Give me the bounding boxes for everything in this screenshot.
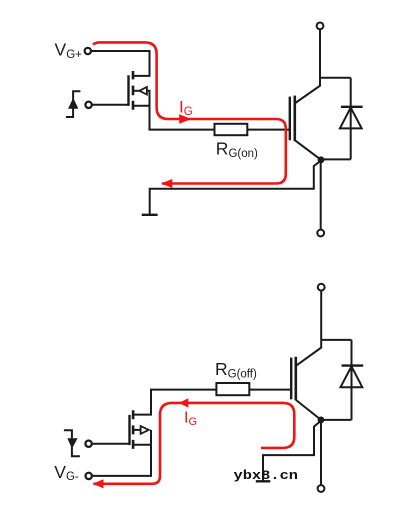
IGBT Z1 gate bar [289, 97, 291, 141]
junction dot emitter (bottom circuit) [318, 417, 325, 424]
Q1 drain stub [133, 75, 151, 77]
wire Q1 source down to RG(on) [150, 91, 215, 130]
red arrowhead IG (mid, points right) [179, 114, 191, 123]
red arrowhead at VG- (points left) [93, 479, 104, 488]
wire Q2 source down to VG- [92, 430, 151, 476]
wire input to Q1 gate [92, 104, 129, 106]
diode D2 triangle [341, 366, 363, 387]
wire top terminal to collector [295, 29, 320, 103]
top terminal [317, 23, 324, 30]
wire collector node to diode top (bottom circuit) [321, 339, 351, 341]
wire dot to diode bottom [321, 158, 351, 160]
transistor Q2 (P-MOSFET) gate bar [128, 415, 130, 445]
transistor Q1 (N-MOSFET) gate bar [127, 75, 129, 106]
svg-text:ybx8.cn: ybx8.cn [234, 469, 299, 483]
Q1 channel segments [132, 71, 135, 110]
ground (bottom circuit) [256, 480, 270, 482]
Q2 drain stub [133, 414, 152, 416]
red turn-off current path [94, 403, 295, 484]
resistor RG(off) [216, 383, 249, 395]
wire input to Q2 gate [92, 443, 130, 445]
resistor RG(on) [215, 124, 248, 135]
wire collector node to diode top [320, 77, 351, 79]
rising-edge input symbol [66, 91, 81, 117]
wire top terminal to collector (bottom circuit) [296, 291, 321, 366]
Q1 source stub [133, 105, 151, 107]
diode D1 cathode bar [341, 106, 363, 108]
diode D1 branch wire [350, 78, 352, 160]
falling-edge input symbol [64, 430, 80, 456]
bottom terminal [317, 230, 324, 237]
wire VG+ to Q1 drain [91, 51, 149, 76]
terminal VG+ [85, 48, 91, 54]
junction dot emitter [318, 156, 325, 163]
IGBT Z2 emitter diagonal [296, 400, 321, 420]
terminal input bottom [85, 441, 91, 447]
bottom terminal (bottom circuit) [318, 485, 325, 492]
IGBT Z2 gate bar [290, 358, 292, 400]
wire RG(off) left to Q2 drain [151, 390, 216, 415]
terminal input top [85, 102, 91, 108]
IGBT Z1 emitter diagonal [295, 141, 321, 160]
diode D1 triangle [340, 108, 362, 129]
red arrowhead return (points left) [161, 179, 172, 188]
diode D2 branch wire [351, 340, 353, 420]
emitter return wire to ground [150, 161, 321, 215]
Q2 body arrow (points right) [133, 429, 141, 431]
wire dot to bottom terminal (bottom circuit) [320, 420, 322, 485]
Q2 channel segments [132, 410, 135, 449]
terminal VG- [86, 473, 92, 479]
red arrowhead IG (mid, points left) [179, 398, 188, 407]
wire dot to diode bottom (bottom circuit) [321, 419, 352, 421]
wire RG(on) to IGBT gate [247, 129, 289, 131]
red turn-on current path [93, 42, 286, 183]
emitter return wire to ground (bottom circuit) [263, 421, 321, 482]
IGBT Z2 body bar [294, 357, 297, 401]
Q1 body arrow (points left) [133, 90, 139, 92]
wire RG(off) to IGBT gate [249, 389, 291, 391]
diode D2 cathode bar [342, 364, 364, 366]
Q2 source stub [133, 444, 152, 446]
ground (top circuit) [142, 214, 158, 216]
wire dot to bottom terminal [320, 160, 322, 230]
top terminal (bottom circuit) [318, 284, 325, 291]
IGBT Z1 body bar [293, 96, 296, 142]
